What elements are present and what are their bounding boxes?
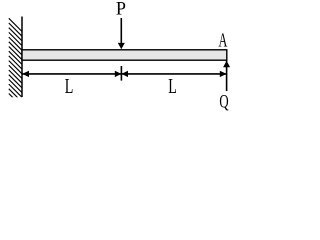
wall hatching <box>9 18 22 106</box>
force P arrow <box>118 18 125 49</box>
svg-text:L: L <box>168 74 177 97</box>
beam <box>22 50 227 60</box>
label L (right span) <box>168 74 177 97</box>
dimension arrow mid-right (pointing left) <box>121 71 128 77</box>
wall line <box>21 17 23 98</box>
svg-text:P: P <box>116 0 126 20</box>
dimension line <box>22 73 227 75</box>
dimension arrow right (at free end) <box>220 71 227 77</box>
label L (left span) <box>65 74 74 97</box>
label Q <box>219 91 228 112</box>
dimension mid tick <box>120 66 122 81</box>
label A <box>218 28 227 51</box>
label P <box>116 0 126 20</box>
dimension arrow mid-left (pointing right) <box>115 71 122 77</box>
svg-text:L: L <box>65 74 74 97</box>
force Q arrow (upward at A) <box>223 61 230 92</box>
svg-text:Q: Q <box>219 91 228 112</box>
dimension arrow left (at wall) <box>22 71 29 77</box>
svg-text:A: A <box>218 28 227 51</box>
